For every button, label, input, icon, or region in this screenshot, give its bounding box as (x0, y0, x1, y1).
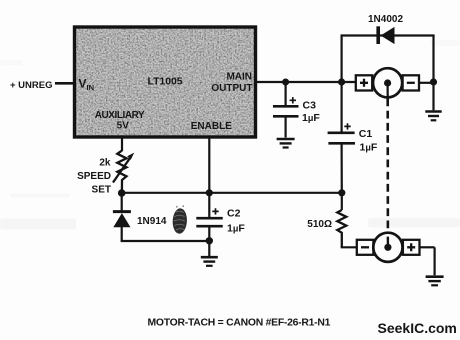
node junction 510 ohm top (338, 189, 345, 196)
wire tach shaft dashed (387, 84, 389, 247)
ground below C3 (277, 139, 295, 148)
svg-text:1μF: 1μF (360, 141, 378, 153)
svg-text:MAIN: MAIN (226, 72, 252, 83)
svg-text:AUXILIARY: AUXILIARY (95, 110, 145, 121)
wire MAIN OUTPUT to motor (256, 81, 357, 83)
node junction enable/C2 (206, 189, 213, 196)
svg-text:ENABLE: ENABLE (191, 121, 232, 132)
diode D1 1N4002 (378, 26, 394, 44)
svg-text:SPEED: SPEED (77, 171, 111, 182)
capacitor C3 (273, 82, 299, 138)
diode D2 1N914 (113, 193, 131, 241)
wire ENABLE pin down (208, 137, 210, 193)
motor M1 (top) (356, 68, 434, 97)
node junction motor right / ground (430, 78, 437, 85)
wire diode loop right vertical (432, 36, 434, 83)
svg-text:5V: 5V (117, 121, 130, 132)
node junction diode/C1 branch (338, 78, 345, 85)
svg-text:+ UNREG: + UNREG (10, 80, 53, 91)
faint scan bleed-through artifacts (0, 40, 460, 230)
wire UNREG to VIN (55, 82, 74, 85)
svg-text:LT1005: LT1005 (148, 76, 183, 87)
svg-text:1μF: 1μF (227, 223, 245, 235)
wire 510 ohm to tach (341, 246, 357, 248)
svg-text:2k: 2k (99, 157, 111, 168)
motor M2 tach (bottom) (357, 233, 435, 262)
wire AUX 5V pin down (121, 137, 123, 151)
svg-text:510Ω: 510Ω (307, 219, 332, 230)
capacitor C2 (196, 193, 222, 241)
svg-text:1N4002: 1N4002 (368, 14, 403, 25)
svg-text:OUTPUT: OUTPUT (211, 83, 252, 94)
node junction C3 (282, 79, 289, 86)
resistor R2 510 ohm (337, 193, 346, 248)
potentiometer R1 2k SPEED SET (113, 151, 134, 194)
smudge artifact (fingerprint) (172, 205, 188, 234)
ground top right (below motor loop) (425, 82, 441, 120)
svg-text:SET: SET (92, 185, 111, 196)
capacitor C1 (328, 82, 355, 193)
node junction C2 bottom (206, 237, 213, 244)
wire mid horizontal (speed set / enable / 510 ohm net) (122, 192, 342, 194)
wire diode loop left vertical (341, 36, 343, 83)
ground below tach right (426, 247, 444, 285)
svg-text:1N914: 1N914 (137, 216, 167, 227)
svg-text:C3: C3 (303, 100, 317, 112)
svg-text:SeekIC.com: SeekIC.com (378, 320, 457, 336)
svg-text:MOTOR-TACH = CANON #EF-26-R1-: MOTOR-TACH = CANON #EF-26-R1-N1 (148, 317, 331, 328)
wire diode loop top horizontal (341, 34, 435, 36)
wire 1N914 bottom to C2 ground (121, 240, 210, 242)
ground below C2 (201, 241, 218, 266)
svg-text:C2: C2 (227, 208, 241, 220)
node junction pot bottom (118, 189, 126, 197)
svg-text:C1: C1 (359, 128, 373, 140)
op-amp U1 regulator box LT1005 (75, 27, 256, 137)
svg-text:1μF: 1μF (302, 112, 320, 124)
